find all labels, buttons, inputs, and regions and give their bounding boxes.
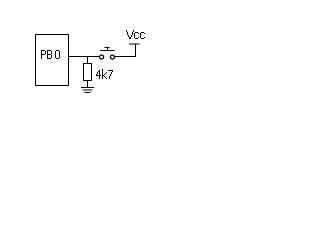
pushbutton S1 right contact (110, 55, 114, 59)
pin label PB0: letter B (47, 50, 52, 59)
net label Vcc: letter V (126, 30, 134, 39)
value label 4k7: digit 7 (108, 70, 113, 79)
pushbutton S1 left contact (100, 55, 104, 59)
wire PB0 pin to switch left contact (68, 56, 100, 58)
ground (81, 88, 94, 93)
value label 4k7: digit 4 (96, 70, 101, 79)
pin label PB0: letter P (41, 50, 46, 59)
pushbutton S1 actuator bar (100, 50, 115, 52)
net label Vcc: letter c (first) (134, 32, 139, 39)
pin label PB0: digit 0 (55, 50, 60, 59)
value label 4k7: letter k (102, 69, 107, 79)
Vcc terminal bar (129, 43, 140, 45)
net label Vcc: letter c (second) (140, 32, 145, 39)
pushbutton S1 plunger stem (107, 48, 109, 51)
pushbutton S1 plunger cap (105, 47, 110, 49)
wire switch right contact to Vcc (115, 44, 136, 57)
IC box U1 (port PB0) (36, 35, 69, 86)
wire resistor R1 to ground (87, 81, 89, 88)
wire junction drop to resistor R1 (87, 57, 89, 64)
resistor R1 body (84, 64, 92, 81)
